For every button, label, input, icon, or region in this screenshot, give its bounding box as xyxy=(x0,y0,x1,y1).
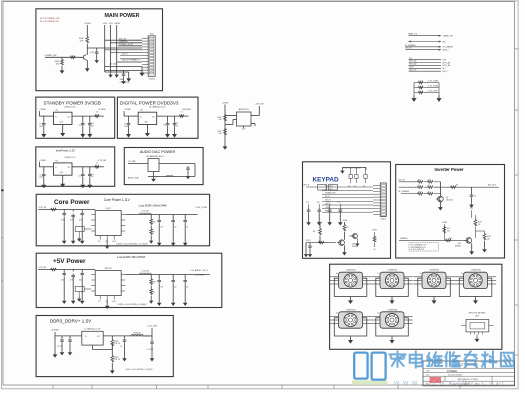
svg-text:100: 100 xyxy=(317,202,320,204)
svg-text:U_SE6214C-1.5V: U_SE6214C-1.5V xyxy=(85,328,102,330)
svg-text:2SC1815: 2SC1815 xyxy=(446,200,453,202)
svg-text:C3: C3 xyxy=(120,346,122,348)
svg-text:+1V2_CORE: +1V2_CORE xyxy=(195,207,207,209)
svg-text:POWER: POWER xyxy=(447,369,457,373)
svg-text:CN3: CN3 xyxy=(443,59,446,61)
svg-text:+1.2V_INV: +1.2V_INV xyxy=(97,160,107,162)
svg-text:LED_D: LED_D xyxy=(317,222,323,224)
svg-text:C5 220uF: C5 220uF xyxy=(147,349,154,351)
svg-text:L3 3.3uH: L3 3.3uH xyxy=(142,271,150,273)
svg-text:CN201: CN201 xyxy=(149,78,156,80)
svg-text:Low ESR<36mOHM: Low ESR<36mOHM xyxy=(117,255,145,259)
svg-text:L3 3.3uH: L3 3.3uH xyxy=(142,211,150,213)
svg-text:www.jdwxzlw.com: www.jdwxzlw.com xyxy=(393,378,507,387)
svg-text:L201 4.7 POWER_5: L201 4.7 POWER_5 xyxy=(122,60,139,62)
svg-text:Low ESR<36mOHM: Low ESR<36mOHM xyxy=(139,204,167,208)
svg-text:G5}#7: G5}#7 xyxy=(105,208,111,210)
svg-text:Core Power 1.11V: Core Power 1.11V xyxy=(104,198,131,202)
svg-text:OUT: OUT xyxy=(67,167,70,169)
svg-text:AP3012KTR: AP3012KTR xyxy=(239,108,250,111)
svg-text:SL 1/1 POWER_ON: SL 1/1 POWER_ON xyxy=(40,21,59,23)
svg-text:10uF: 10uF xyxy=(112,301,116,303)
svg-text:U9: U9 xyxy=(56,160,58,162)
svg-text:U5: U5 xyxy=(420,273,422,275)
svg-text:STANDBY POWER 3V/3GB: STANDBY POWER 3V/3GB xyxy=(44,101,101,106)
svg-text:SP1212: SP1212 xyxy=(105,268,113,270)
svg-text:Inverter Power: Inverter Power xyxy=(434,167,463,172)
svg-text:L9: L9 xyxy=(96,112,98,114)
svg-text:LM1117-3.3: LM1117-3.3 xyxy=(65,106,77,108)
svg-text:SL_DIMMING: SL_DIMMING xyxy=(443,47,454,49)
svg-text:+5VSB D1 D2 D3 1N4148: +5VSB D1 D2 D3 1N4148 xyxy=(342,167,361,169)
svg-text:J473: J473 xyxy=(475,316,479,318)
svg-text:0.925 x (1+6.2K/1K) = 5.0(6)V: 0.925 x (1+6.2K/1K) = 5.0(6)V xyxy=(117,304,147,306)
svg-text:LED_R: LED_R xyxy=(325,200,331,202)
svg-text:KEYPAD: KEYPAD xyxy=(313,177,340,184)
svg-text:INV_ON: INV_ON xyxy=(405,48,412,50)
svg-text:KEY2_AD: KEY2_AD xyxy=(443,64,451,67)
svg-text:LED_C: LED_C xyxy=(443,71,449,73)
svg-text:100: 100 xyxy=(428,179,431,181)
svg-text:IF 1/1 DIMMING 0-5V: IF 1/1 DIMMING 0-5V xyxy=(411,245,427,247)
svg-text:KEY_B: KEY_B xyxy=(304,185,310,187)
svg-text:PANEL_ON: PANEL_ON xyxy=(408,33,418,36)
svg-text:KEY_AD2: KEY_AD2 xyxy=(325,188,333,191)
svg-text:100: 100 xyxy=(79,220,82,222)
svg-text:SL_AMS1117-3.3: SL_AMS1117-3.3 xyxy=(149,105,166,108)
svg-text:1uF: 1uF xyxy=(160,287,163,289)
svg-text:U9: U9 xyxy=(140,110,142,112)
svg-text:InverPower 1.2V: InverPower 1.2V xyxy=(56,149,75,153)
svg-text:KEY1_AD: KEY1_AD xyxy=(443,61,451,64)
svg-text:L2: L2 xyxy=(428,185,430,187)
svg-text:+12V: +12V xyxy=(108,23,113,25)
svg-text:R7: R7 xyxy=(347,227,349,229)
svg-text:U5: U5 xyxy=(461,273,463,275)
svg-text:+12V_IN: +12V_IN xyxy=(38,267,46,269)
svg-text:Q2: Q2 xyxy=(174,287,176,289)
svg-text:+5V(SPK03): +5V(SPK03) xyxy=(470,270,480,272)
svg-text:U5: U5 xyxy=(336,313,338,315)
svg-text:C10: C10 xyxy=(78,175,81,177)
svg-text:100: 100 xyxy=(79,280,82,282)
svg-text:C10: C10 xyxy=(78,125,81,127)
svg-text:DIGITAL POWER DVDD3V3: DIGITAL POWER DVDD3V3 xyxy=(120,101,179,106)
svg-text:C205 470uF: C205 470uF xyxy=(120,82,131,84)
svg-text:R478: R478 xyxy=(372,230,376,232)
svg-text:PWM DIMMING 0-5V: PWM DIMMING 0-5V xyxy=(411,247,427,249)
svg-text:KEY1_AD: KEY1_AD xyxy=(409,60,417,63)
svg-text:L2: L2 xyxy=(327,202,329,204)
svg-text:Q2: Q2 xyxy=(174,227,176,229)
svg-text:AUDIO_5VA: AUDIO_5VA xyxy=(128,177,139,180)
svg-text:R6: R6 xyxy=(313,231,315,233)
svg-text:INV_ON_S: INV_ON_S xyxy=(488,185,497,187)
svg-text:100 1%: 100 1% xyxy=(114,359,120,361)
svg-text:+5VSB: +5VSB xyxy=(222,103,229,105)
svg-text:R125: R125 xyxy=(487,236,491,238)
svg-text:CN472: CN472 xyxy=(381,219,387,221)
svg-text:+5VSB: +5VSB xyxy=(39,160,46,162)
svg-text:R124: R124 xyxy=(478,222,482,224)
svg-text:R5: R5 xyxy=(456,185,458,187)
svg-text:10uF: 10uF xyxy=(61,220,65,222)
svg-text:U5: U5 xyxy=(378,273,380,275)
svg-text:SS8050: SS8050 xyxy=(455,246,461,248)
svg-text:SS8050: SS8050 xyxy=(352,246,358,248)
svg-text:LM1117-1.2: LM1117-1.2 xyxy=(65,157,77,159)
svg-text:+12V_IN: +12V_IN xyxy=(38,207,46,209)
svg-text:+12V_S: +12V_S xyxy=(121,54,128,56)
svg-text:+3.3VSB: +3.3VSB xyxy=(98,109,106,111)
svg-text:+5V_USB: +5V_USB xyxy=(195,275,205,277)
svg-text:WIFI_FOR_APTB(U): WIFI_FOR_APTB(U) xyxy=(469,312,486,315)
svg-text:+23V_OUT: +23V_OUT xyxy=(255,104,265,106)
svg-text:R2: R2 xyxy=(98,301,100,303)
svg-text:OUT: OUT xyxy=(67,116,70,118)
svg-text:U10 AMS1086CM-3.3: U10 AMS1086CM-3.3 xyxy=(146,155,163,158)
svg-text:POWER_KEY: POWER_KEY xyxy=(325,193,337,195)
svg-text:+24V: +24V xyxy=(102,23,107,25)
svg-text:INV_ON: INV_ON xyxy=(399,179,406,181)
svg-text:10uF: 10uF xyxy=(418,191,422,193)
svg-text:SL 1/1 P_DIM 3.3V: SL 1/1 P_DIM 3.3V xyxy=(411,249,426,251)
svg-text:0.8V x (1+0.47K/1K) = 1.5(2)V: 0.8V x (1+0.47K/1K) = 1.5(2)V xyxy=(126,369,154,371)
svg-text:10uF: 10uF xyxy=(61,280,65,282)
svg-text:Document Number: Document Number xyxy=(448,373,463,376)
svg-text:0.925 x (1+0.7K/10K) = 1.17(2): 0.925 x (1+0.7K/10K) = 1.17(2)V xyxy=(116,243,148,245)
svg-text:+5VSB: +5VSB xyxy=(442,222,447,224)
svg-text:C203: C203 xyxy=(90,52,94,54)
svg-text:POWER_SW: POWER_SW xyxy=(45,55,57,57)
svg-text:+5V_5A: +5V_5A xyxy=(109,63,117,66)
svg-text:+5VSB: +5VSB xyxy=(114,23,121,25)
svg-text:+5V(SPK02): +5V(SPK02) xyxy=(345,270,355,272)
svg-text:Title:: Title: xyxy=(426,370,430,373)
svg-text:+5VSB: +5VSB xyxy=(39,109,46,111)
svg-text:C9: C9 xyxy=(474,196,476,198)
svg-text:R2: R2 xyxy=(98,241,100,243)
svg-text:+5V(SPK03): +5V(SPK03) xyxy=(387,309,397,311)
svg-text:C10: C10 xyxy=(163,125,166,127)
svg-text:DVDD3V3: DVDD3V3 xyxy=(182,109,191,111)
svg-text:100 1%: 100 1% xyxy=(114,343,120,345)
svg-text:+5VSB: +5VSB xyxy=(342,220,347,222)
svg-text:+5V(SPK02): +5V(SPK02) xyxy=(387,270,397,272)
svg-text:+5V_AUDIO +5V_S: +5V_AUDIO +5V_S xyxy=(190,269,208,272)
svg-text:L9: L9 xyxy=(96,162,98,164)
svg-text:R10: R10 xyxy=(449,238,452,240)
svg-text:LED_CTL: LED_CTL xyxy=(409,69,416,71)
svg-text:OUT: OUT xyxy=(152,116,155,118)
svg-text:104: 104 xyxy=(91,176,94,178)
svg-text:0.1: 0.1 xyxy=(338,202,340,204)
svg-text:KEY2_AD: KEY2_AD xyxy=(409,63,417,66)
svg-text:U9: U9 xyxy=(56,110,58,112)
svg-text:SL_DIMMING: SL_DIMMING xyxy=(405,45,416,47)
svg-text:POWER_On/Off: POWER_On/Off xyxy=(119,44,133,46)
svg-text:+12VIN: +12VIN xyxy=(84,23,91,25)
svg-text:+5V(SPK02): +5V(SPK02) xyxy=(429,270,439,272)
svg-text:U5: U5 xyxy=(378,313,380,315)
svg-text:Size: Size xyxy=(426,374,429,376)
svg-text:OUT: OUT xyxy=(97,336,100,338)
svg-text:+5V(SPK02): +5V(SPK02) xyxy=(345,309,355,311)
svg-text:+3.3VSB: +3.3VSB xyxy=(51,330,60,332)
svg-text:1uF: 1uF xyxy=(160,227,163,229)
svg-text:+C_P1_5V0B0: +C_P1_5V0B0 xyxy=(427,81,438,83)
svg-text:+C_P1_5V0B: +C_P1_5V0B xyxy=(427,91,438,93)
svg-text:104: 104 xyxy=(91,125,94,127)
svg-text:DIMMING: DIMMING xyxy=(119,41,128,43)
svg-text:104: 104 xyxy=(175,125,178,127)
svg-text:+1.5V_DDR: +1.5V_DDR xyxy=(147,326,158,328)
svg-text:+5VSB: +5VSB xyxy=(124,109,131,111)
svg-text:L9: L9 xyxy=(181,112,183,114)
svg-text:R11: R11 xyxy=(447,228,450,230)
svg-text:DDR15B: DDR15B xyxy=(133,333,141,335)
svg-text:MAIN POWER: MAIN POWER xyxy=(104,13,139,19)
svg-text:U5: U5 xyxy=(336,273,338,275)
svg-text:+5VSB: +5VSB xyxy=(325,207,331,209)
svg-text:C1 104: C1 104 xyxy=(57,346,63,348)
svg-text:AUDIO DAC POWER: AUDIO DAC POWER xyxy=(140,150,176,154)
svg-text:R2: R2 xyxy=(418,179,420,181)
svg-text:+C_P1_5V0B0: +C_P1_5V0B0 xyxy=(427,86,438,88)
svg-text:IR_1: IR_1 xyxy=(443,68,447,70)
svg-text:0.1: 0.1 xyxy=(428,191,430,193)
svg-text:+PANEL_PW: +PANEL_PW xyxy=(443,35,453,38)
svg-text:C2: C2 xyxy=(418,185,420,187)
svg-text:INV(0..): INV(0..) xyxy=(443,50,449,52)
svg-text:DIMMING: DIMMING xyxy=(400,238,408,240)
svg-text:Core Power: Core Power xyxy=(54,199,90,206)
svg-text:DDR3_DDRV+ 1.5V: DDR3_DDRV+ 1.5V xyxy=(50,319,92,324)
svg-text:P20: P20 xyxy=(409,58,412,60)
svg-text:+5V Power: +5V Power xyxy=(53,258,86,265)
svg-text:+5V_REF: +5V_REF xyxy=(128,161,137,163)
svg-text:SL_DIMMING: SL_DIMMING xyxy=(399,191,410,193)
